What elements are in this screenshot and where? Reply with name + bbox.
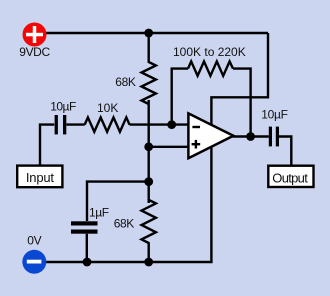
wire feedback left column [172, 69, 188, 125]
wire R4 to op-amp minus input [130, 123, 190, 125]
svg-text:10µF: 10µF [261, 107, 287, 121]
wire input from Input box [40, 125, 54, 165]
capacitor C2 1uF [71, 221, 98, 225]
junction dot bias/1uF [144, 177, 153, 186]
wire C3 to Output box [279, 137, 291, 166]
resistor R3 100K-220K feedback [188, 61, 233, 75]
resistor R1 68K (upper) [142, 33, 156, 104]
junction dot top rail / R1 [144, 29, 153, 38]
wire V- from op-amp to 0V rail [210, 145, 212, 262]
battery negative terminal 0V [22, 250, 46, 274]
svg-text:9VDC: 9VDC [19, 45, 50, 59]
resistor R4 10K [85, 117, 130, 131]
wire op-amp output [232, 135, 269, 137]
svg-text:68K: 68K [114, 217, 135, 231]
capacitor C3 10uF (output) [269, 127, 272, 147]
Input box [17, 166, 62, 188]
wire 1uF branch [87, 182, 149, 221]
op-amp minus symbol [192, 126, 200, 128]
svg-text:1µF: 1µF [89, 206, 109, 220]
junction dot bias/plus-input [144, 142, 153, 151]
op-amp plus symbol [192, 143, 201, 145]
resistor R2 68K (lower) [142, 200, 156, 262]
wire plus input from bias column [149, 146, 189, 148]
junction dot rail/1uF [83, 258, 92, 267]
wire feedback right column [233, 69, 251, 137]
op-amp U1 [188, 113, 233, 158]
junction dot feedback/output [246, 132, 255, 141]
svg-text:100K to 220K: 100K to 220K [173, 45, 246, 59]
junction dot feedback/minus-input [167, 120, 176, 129]
wire V+ branch to op-amp pin [211, 33, 268, 126]
wire C1 to R4 [66, 123, 84, 125]
svg-text:0V: 0V [27, 233, 41, 247]
svg-text:Input: Input [26, 170, 55, 185]
capacitor C1 10uF (input) [55, 115, 58, 134]
wire top rail (9V) [34, 32, 268, 34]
wire bias column (between 68K resistors) [147, 100, 149, 203]
Output box [268, 166, 313, 187]
battery positive terminal 9VDC [23, 23, 47, 47]
svg-text:10K: 10K [97, 101, 118, 115]
wire C2 to 0V rail [86, 234, 88, 262]
svg-text:68K: 68K [115, 75, 136, 89]
junction dot rail/R2 [144, 258, 153, 267]
svg-text:Output: Output [272, 171, 308, 186]
wire bottom rail (0V) [34, 261, 213, 263]
svg-text:10µF: 10µF [50, 99, 76, 113]
